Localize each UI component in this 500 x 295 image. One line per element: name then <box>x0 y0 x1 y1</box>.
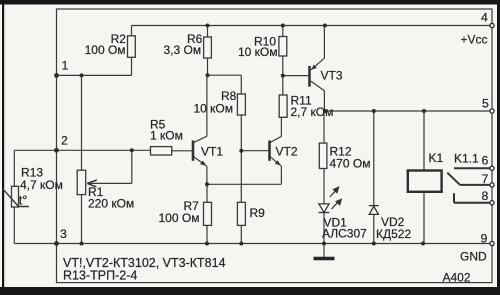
svg-text:1: 1 <box>62 59 69 73</box>
svg-text:K1.1: K1.1 <box>454 152 479 166</box>
svg-text:4,7 кОм: 4,7 кОм <box>20 178 63 192</box>
svg-text:t°: t° <box>19 193 28 208</box>
svg-text:7: 7 <box>482 172 489 186</box>
svg-text:1 кОм: 1 кОм <box>150 129 183 143</box>
svg-text:GND: GND <box>460 250 487 264</box>
svg-text:3,3 Ом: 3,3 Ом <box>164 43 202 57</box>
svg-text:220 кОм: 220 кОм <box>88 197 134 211</box>
svg-text:R13-ТРП-2-4: R13-ТРП-2-4 <box>63 269 137 283</box>
svg-text:+Vcc: +Vcc <box>461 33 488 47</box>
svg-text:8: 8 <box>482 189 489 203</box>
svg-text:4: 4 <box>481 11 488 25</box>
svg-text:КД522: КД522 <box>376 227 411 241</box>
svg-text:R9: R9 <box>250 206 266 220</box>
svg-text:VT2: VT2 <box>276 145 298 159</box>
svg-text:9: 9 <box>481 232 488 246</box>
svg-text:470 Ом: 470 Ом <box>330 157 371 171</box>
svg-text:VT3: VT3 <box>321 69 343 83</box>
svg-text:10 кОм: 10 кОм <box>194 102 234 116</box>
svg-text:100 Ом: 100 Ом <box>159 211 200 225</box>
svg-text:6: 6 <box>482 154 489 168</box>
svg-text:VT1: VT1 <box>201 145 223 159</box>
svg-text:100 Ом: 100 Ом <box>85 43 126 57</box>
svg-text:2: 2 <box>61 134 68 148</box>
svg-text:2,7 кОм: 2,7 кОм <box>291 105 334 119</box>
svg-text:K1: K1 <box>429 151 444 165</box>
svg-text:10 кОм: 10 кОм <box>238 45 278 59</box>
svg-text:A402: A402 <box>443 271 471 285</box>
svg-text:3: 3 <box>60 227 67 241</box>
svg-text:5: 5 <box>482 97 489 111</box>
svg-text:АЛС307: АЛС307 <box>322 227 367 241</box>
